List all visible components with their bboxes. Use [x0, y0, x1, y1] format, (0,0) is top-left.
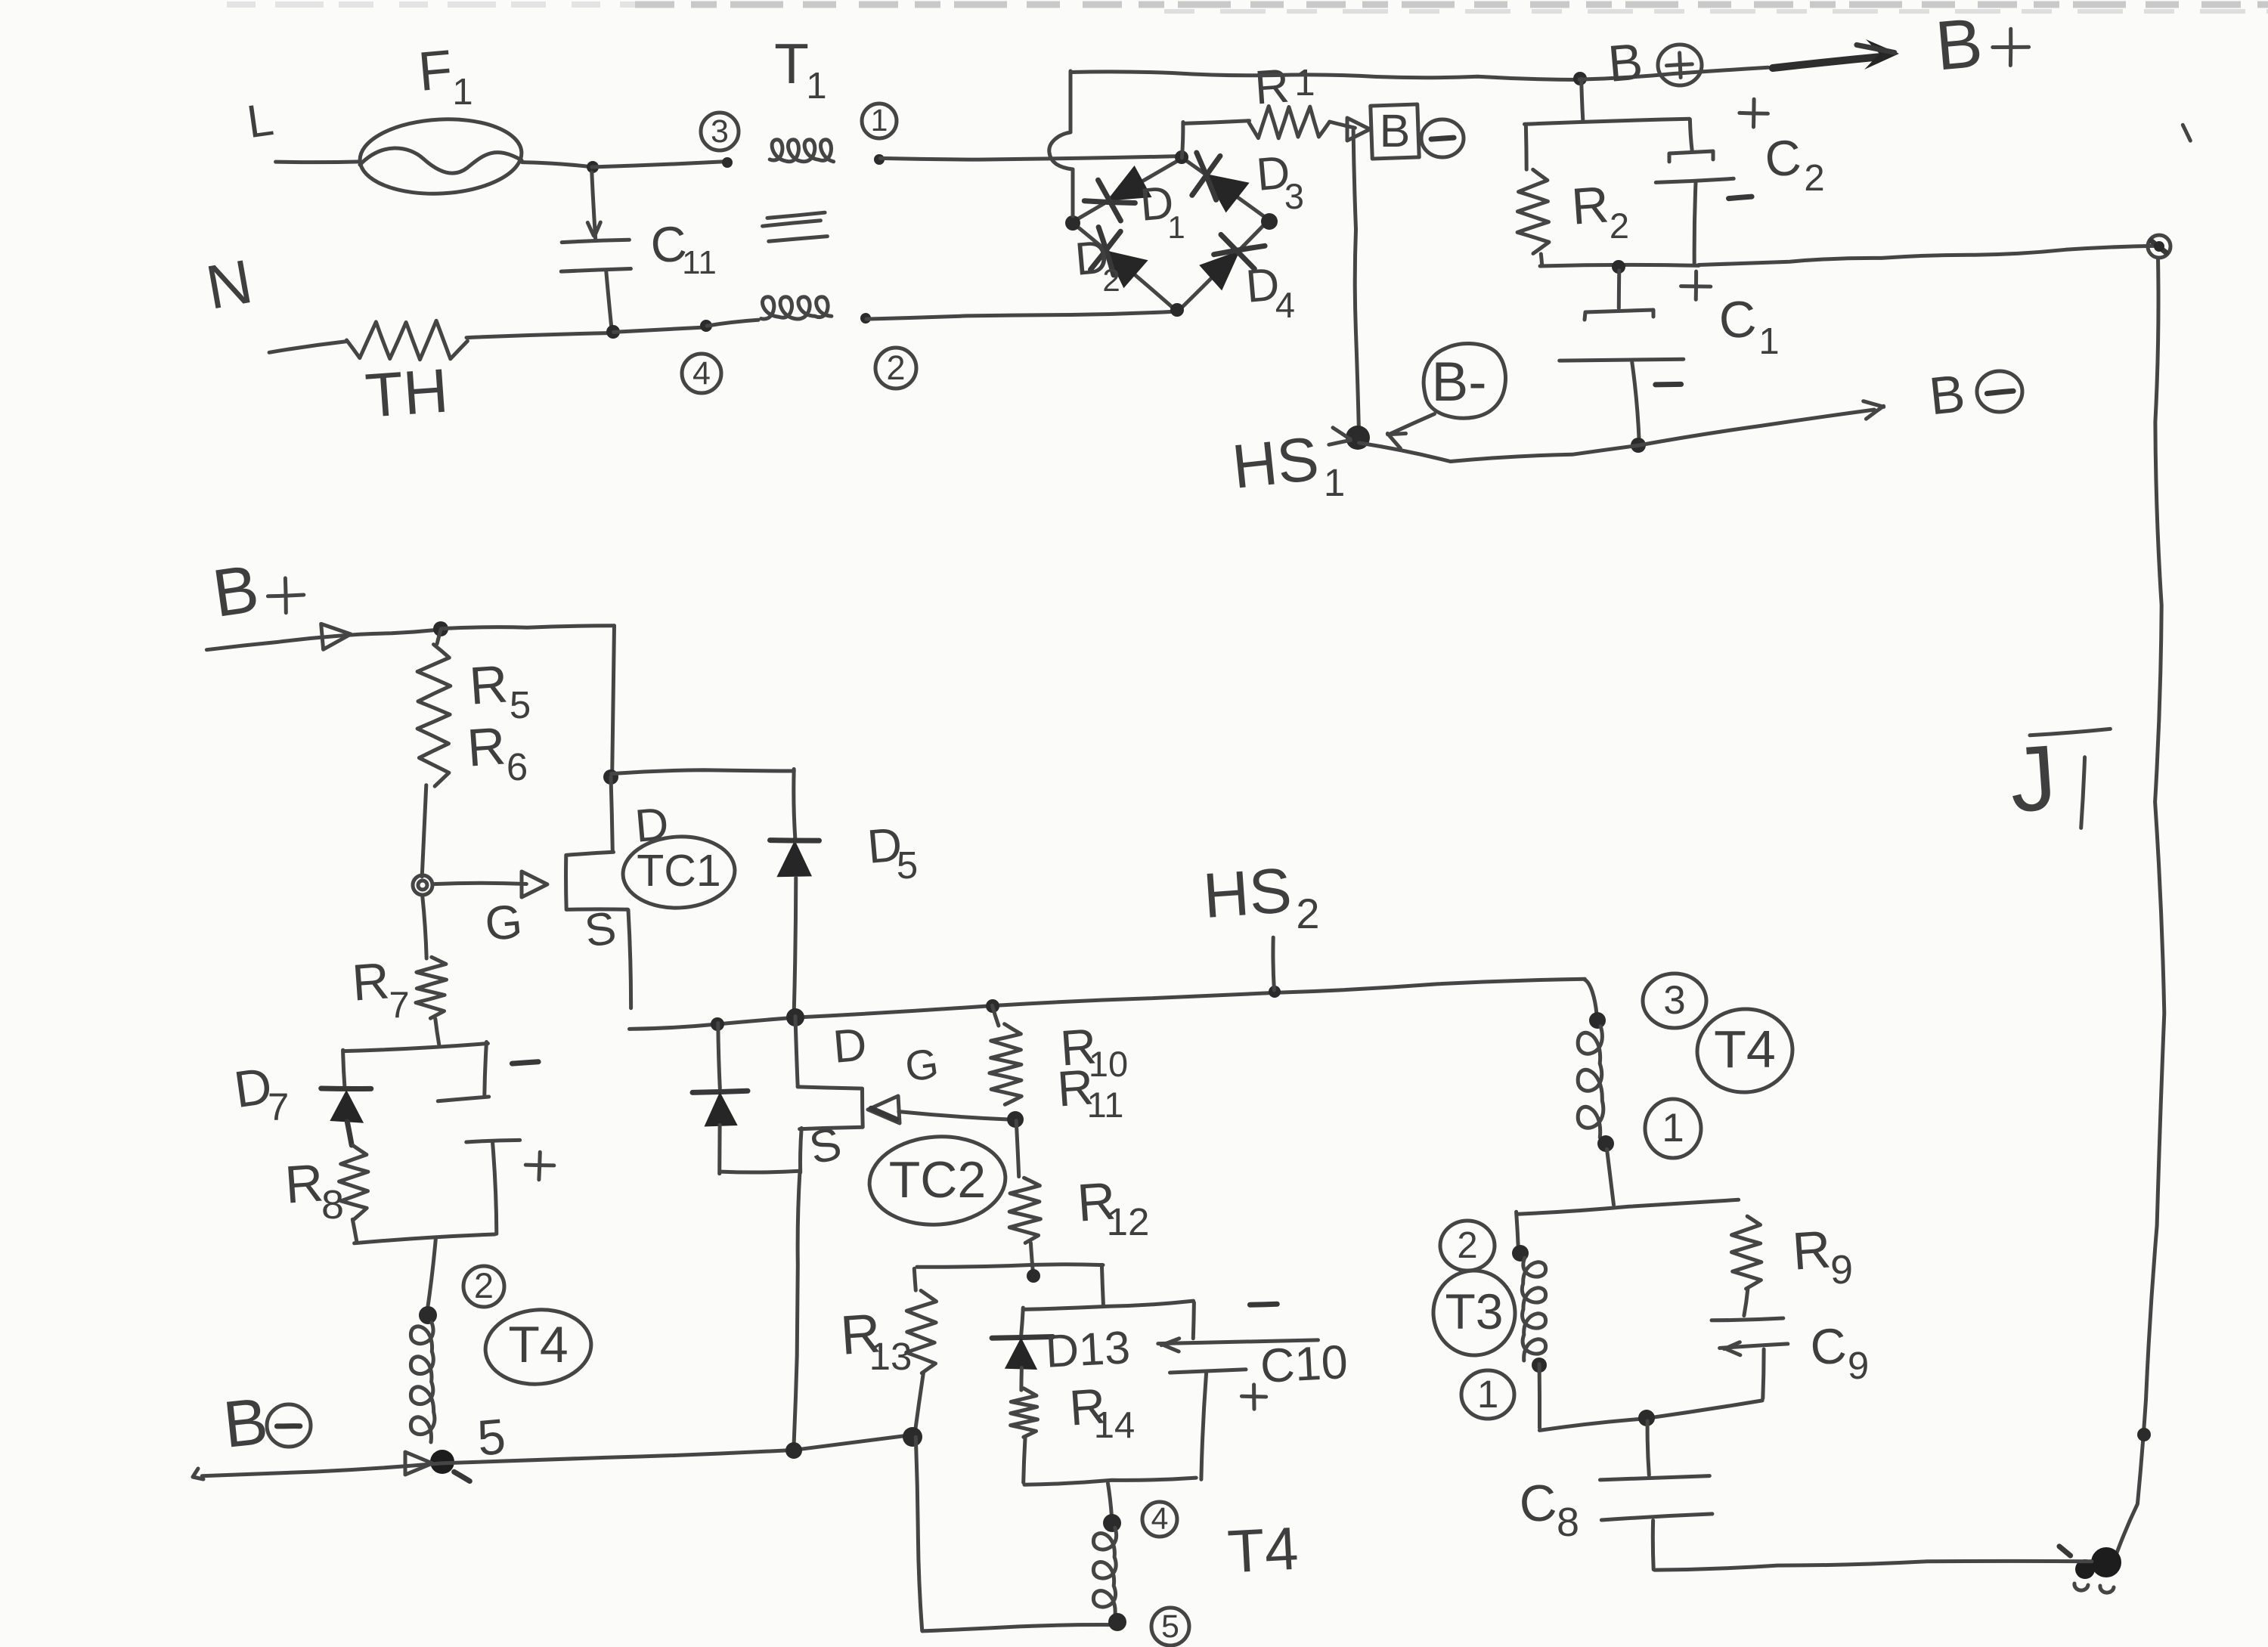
label R11	[1055, 1058, 1123, 1125]
pin label 2 (T1)	[875, 348, 916, 389]
svg-text:1: 1	[871, 103, 888, 138]
junction rail diode	[711, 1017, 724, 1031]
svg-text:10: 10	[1089, 1044, 1128, 1084]
label R12	[1075, 1171, 1149, 1243]
svg-text:B: B	[1606, 33, 1645, 93]
label C8	[1517, 1473, 1579, 1545]
svg-text:TH: TH	[363, 356, 450, 430]
svg-text:R: R	[467, 654, 510, 715]
capacitor C8	[1600, 1421, 1712, 1569]
wire R2C2 top	[1525, 119, 1690, 124]
junction B+ rail	[1573, 72, 1587, 85]
label HS2	[1201, 854, 1319, 937]
wire R6 to G node	[422, 785, 426, 877]
svg-text:C10: C10	[1259, 1336, 1349, 1393]
wire C8 to J1 blob	[1654, 1561, 2092, 1570]
arrow at 5	[405, 1452, 432, 1475]
pin label 1 (T3)	[1461, 1370, 1514, 1419]
wire node to J1 (long)	[1699, 246, 2158, 265]
label D13	[1044, 1321, 1131, 1377]
core T1	[763, 212, 828, 241]
wire R8 bottom lead	[352, 1219, 356, 1240]
node N (AC neutral input)	[201, 247, 257, 323]
capacitor C11	[561, 172, 631, 330]
pin label 4 (T4 bottom)	[1142, 1501, 1177, 1537]
label C9	[1808, 1317, 1869, 1387]
svg-text:2: 2	[1296, 890, 1319, 937]
battery cell	[438, 1042, 519, 1234]
svg-text:2: 2	[1457, 1225, 1477, 1266]
junction T4 pin1	[1597, 1135, 1614, 1152]
junction R12 bottom	[1027, 1269, 1040, 1283]
label F1	[416, 39, 473, 113]
diode D4	[1199, 234, 1265, 290]
wire TC1 top to D5	[612, 769, 795, 838]
inductor T3 winding	[1522, 1258, 1545, 1361]
svg-text:B-: B-	[1432, 351, 1487, 413]
wire T1 pin1 to bridge	[880, 156, 1182, 160]
svg-text:3: 3	[1284, 176, 1304, 216]
wire to T1 pin3	[592, 162, 724, 167]
wire inner box bottom	[1024, 1478, 1196, 1484]
terminal box B-	[1371, 104, 1419, 159]
svg-text:9: 9	[1830, 1247, 1853, 1293]
junction rail TC2 drain	[786, 1008, 804, 1026]
label B circled minus (right)	[1926, 364, 2022, 426]
capacitor C10	[1158, 1302, 1318, 1479]
svg-text:8: 8	[321, 1182, 344, 1228]
resistor R8	[339, 1145, 368, 1219]
arrow HS1 label	[1329, 428, 1351, 445]
junction T4 pin5	[1108, 1613, 1126, 1631]
junction bridge right corner	[1261, 213, 1278, 230]
svg-text:F: F	[416, 39, 454, 103]
arrow cloud to HS1	[1387, 414, 1434, 449]
wire T3 box bottom	[1539, 1401, 1762, 1431]
capacitor C9	[1712, 1289, 1788, 1398]
resistor R13	[906, 1268, 937, 1434]
inductor T4 winding 4-5	[1093, 1528, 1116, 1614]
svg-text:2: 2	[1804, 158, 1824, 199]
svg-text:T3: T3	[1445, 1283, 1503, 1339]
wire bridge edge D2	[1072, 222, 1176, 311]
terminal B- (bottom left)	[220, 1384, 311, 1462]
junction rail HS2	[1269, 986, 1281, 998]
svg-text:B: B	[1932, 5, 1985, 85]
pin label 1 (T4 right)	[1645, 1099, 1701, 1158]
label S (TC2)	[805, 1117, 846, 1174]
pin label 3 (T1)	[701, 113, 739, 150]
wire G node to gate arrow	[433, 883, 526, 884]
svg-text:R: R	[465, 716, 507, 777]
wire J1 vertical	[2117, 258, 2164, 1553]
label S (TC1)	[581, 902, 619, 957]
wire TC2 source down	[794, 1171, 800, 1449]
diode D3	[1192, 153, 1250, 212]
svg-text:R: R	[350, 952, 391, 1011]
junction top right (circled)	[2148, 235, 2170, 258]
wire L input	[276, 159, 361, 164]
svg-text:14: 14	[1094, 1405, 1136, 1446]
svg-text:D: D	[831, 1018, 869, 1073]
resistor R7	[416, 895, 447, 1018]
resistor R2	[1517, 169, 1549, 253]
wire gate TC2 to R11 node	[899, 1112, 1015, 1120]
junction T1 pin2	[860, 313, 871, 324]
capacitor C2	[1656, 119, 1734, 265]
junction T1 pin4	[700, 320, 712, 332]
svg-text:1: 1	[1167, 209, 1185, 245]
junction T3 pin1	[1532, 1358, 1547, 1373]
wire TH to C11 bottom	[466, 333, 613, 338]
svg-text:B: B	[220, 1384, 271, 1462]
svg-text:9: 9	[1848, 1344, 1869, 1387]
circled minus (B- terminal)	[1421, 119, 1464, 157]
svg-text:7: 7	[268, 1085, 289, 1128]
svg-text:T4: T4	[1714, 1020, 1776, 1079]
node G ring	[413, 875, 432, 895]
wire bridge edge D3	[1181, 156, 1269, 220]
arrow B- right	[1864, 401, 1884, 419]
wire R1 right	[1330, 122, 1356, 128]
wire HS2 tick	[1273, 937, 1274, 990]
wire HS1 to B- arrow (bottom)	[1359, 410, 1875, 462]
junction C11-top	[587, 161, 599, 173]
stray mark (scan)	[2183, 125, 2190, 141]
diode D5	[770, 841, 820, 1013]
label J1	[2006, 726, 2110, 831]
label R5	[467, 654, 531, 726]
junction T1 pin1	[874, 154, 885, 165]
wire D7 top lead	[343, 1050, 345, 1085]
wire to T1 pin4	[614, 327, 704, 332]
label T1	[774, 32, 827, 107]
svg-text:7: 7	[389, 985, 409, 1026]
junction T4 pin4	[1103, 1514, 1121, 1532]
label D5	[865, 818, 918, 887]
svg-text:4: 4	[1275, 285, 1295, 325]
label R6	[465, 716, 528, 788]
wire top B+ rail	[1071, 72, 1579, 80]
svg-text:11: 11	[682, 244, 717, 281]
svg-text:C: C	[1517, 1473, 1558, 1533]
label D4	[1244, 258, 1295, 325]
label R1	[1253, 60, 1315, 115]
junction T1 pin3	[722, 157, 733, 168]
inductor T4 winding 2-5	[411, 1323, 434, 1443]
svg-text:R: R	[1790, 1219, 1833, 1280]
wire junction down to R2C2	[1582, 79, 1583, 122]
svg-text:1: 1	[452, 72, 472, 113]
wire R13 box top	[917, 1265, 1103, 1267]
svg-text:13: 13	[869, 1335, 912, 1378]
label T4 (circled, left)	[482, 1305, 594, 1388]
pin label 4 (T1)	[682, 354, 721, 393]
inductor T4 winding 3-1	[1578, 1026, 1603, 1138]
label B+ (top right)	[1932, 5, 2028, 85]
svg-text:6: 6	[507, 745, 528, 788]
label D (TC2)	[831, 1018, 869, 1073]
label D1	[1138, 176, 1185, 245]
svg-text:HS: HS	[1229, 424, 1322, 501]
label R7	[350, 952, 409, 1026]
label D3	[1254, 146, 1304, 216]
wire rail corner down	[1585, 980, 1597, 1014]
svg-text:G: G	[902, 1039, 941, 1090]
junction C1 bottom	[1631, 438, 1646, 453]
junction gate node TC2	[1007, 1111, 1024, 1128]
label T4 (bottom)	[1226, 1515, 1300, 1586]
wire bridge edge D1	[1072, 158, 1183, 223]
junction TC2 source on B-	[785, 1442, 802, 1459]
svg-text:1: 1	[1324, 461, 1345, 504]
plus C10	[1241, 1385, 1266, 1409]
wire R13 down left side	[916, 1437, 922, 1630]
label R2	[1569, 175, 1629, 246]
capacitor C1	[1560, 271, 1684, 441]
wire D7 box bottom	[355, 1234, 495, 1243]
svg-text:TC2: TC2	[889, 1151, 986, 1209]
wire T3 bottom lead	[1538, 1364, 1541, 1429]
svg-text:C: C	[1763, 128, 1803, 187]
junction TC1 drain node	[603, 769, 618, 785]
svg-text:J: J	[2006, 726, 2059, 831]
svg-text:T: T	[774, 32, 809, 95]
fuse F1	[358, 115, 524, 197]
label D2	[1073, 231, 1120, 298]
arrow gate TC1	[522, 871, 547, 897]
label D7	[231, 1057, 289, 1128]
resistor R10 R11	[990, 1005, 1021, 1104]
wire bridge top to R1	[1182, 122, 1183, 158]
wire T3 box top	[1517, 1200, 1738, 1214]
junction C1 top	[1612, 260, 1625, 274]
label C1	[1717, 289, 1779, 362]
junction blob 5	[430, 1450, 469, 1481]
svg-text:G: G	[483, 895, 525, 951]
wire T3 top lead	[1517, 1212, 1519, 1249]
svg-text:1: 1	[1662, 1106, 1684, 1150]
junction T4 pin3	[1589, 1012, 1606, 1029]
wire inner box top	[1023, 1301, 1193, 1309]
wire R2C2 bottom	[1540, 265, 1699, 266]
svg-text:3: 3	[711, 113, 729, 150]
wire HS2 rail	[630, 979, 1585, 1029]
wire box right corner down	[1101, 1265, 1103, 1306]
svg-text:2: 2	[474, 1265, 494, 1305]
arrow B+ feed	[321, 624, 351, 649]
resistor R5 R6	[417, 629, 451, 786]
svg-text:5: 5	[1161, 1608, 1179, 1645]
label TC1 (circled)	[621, 834, 737, 911]
svg-text:TC1: TC1	[637, 846, 720, 896]
wire diode to TC2 source	[720, 1171, 799, 1172]
junction bridge bottom corner	[1170, 303, 1184, 317]
inductor T1 winding 4-2	[761, 297, 832, 319]
junction R13 bottom	[903, 1427, 922, 1447]
wire R14 bottom	[1024, 1438, 1025, 1483]
svg-text:T4: T4	[1226, 1515, 1300, 1586]
svg-text:C: C	[1808, 1317, 1848, 1375]
diode TC2 protection	[692, 1023, 748, 1174]
svg-text:HS: HS	[1201, 854, 1294, 931]
svg-text:R: R	[1569, 175, 1610, 235]
inductor T1 winding 3-1	[770, 140, 833, 162]
pin label 5 (T4 bottom)	[1151, 1608, 1189, 1645]
wire T4 pin1 to T3 box	[1607, 1149, 1614, 1205]
svg-text:B: B	[1926, 364, 1968, 426]
plus battery	[525, 1152, 554, 1180]
wire bridge edge D4	[1179, 221, 1269, 311]
terminal cloud B-	[1424, 343, 1505, 418]
label 5	[475, 1408, 507, 1466]
svg-text:12: 12	[1107, 1200, 1150, 1243]
wire TC1 drain branch	[612, 626, 615, 774]
label TC2 (circled)	[866, 1132, 1009, 1229]
label R13	[838, 1302, 912, 1378]
mosfet TC1 body	[566, 777, 631, 1008]
minus C1	[1656, 382, 1681, 388]
svg-text:5: 5	[510, 683, 531, 726]
svg-text:D13: D13	[1044, 1321, 1131, 1377]
node L (AC line input)	[244, 93, 277, 147]
svg-text:1: 1	[1758, 321, 1779, 362]
label R8	[283, 1153, 344, 1228]
junction blob bottom right	[2059, 1546, 2121, 1593]
wire D7 box top	[343, 1044, 488, 1051]
junction T4 pin2	[419, 1306, 437, 1324]
wire B+ to TC1 branch	[442, 626, 613, 629]
resistor R1	[1249, 107, 1330, 138]
svg-text:B: B	[1380, 105, 1411, 156]
junction bridge left corner	[1065, 215, 1080, 231]
wire N input	[269, 342, 347, 353]
svg-text:5: 5	[897, 844, 918, 887]
wire R1 left	[1183, 121, 1250, 124]
label B circled plus (B+)	[1606, 33, 1702, 93]
svg-text:3: 3	[1663, 978, 1685, 1023]
plus C2	[1740, 99, 1768, 127]
junction bridge top corner	[1175, 150, 1188, 164]
wire fuse to C11 node	[522, 163, 592, 167]
label TH	[363, 356, 450, 430]
label R14	[1067, 1377, 1135, 1446]
label T3 (circled)	[1430, 1268, 1518, 1358]
svg-text:2: 2	[1610, 206, 1629, 246]
wire box to T4 pin2	[427, 1237, 435, 1310]
minus C10	[1250, 1304, 1277, 1305]
wire B+ rail to arrow	[1579, 67, 1768, 79]
plus C1	[1681, 271, 1711, 299]
wire inner bottom to T4 pin4	[1108, 1484, 1112, 1517]
svg-text:4: 4	[692, 355, 711, 392]
label C2	[1763, 128, 1825, 199]
junction rail R10	[986, 999, 999, 1013]
diode D2	[1091, 228, 1148, 289]
arrow into B- terminal	[1347, 118, 1370, 141]
wire bottom box	[922, 1625, 1115, 1631]
scan artifact band (decorative)	[227, 5, 2268, 11]
minus battery	[512, 1062, 538, 1063]
label G (TC1)	[483, 895, 525, 951]
svg-text:8: 8	[1557, 1500, 1579, 1545]
svg-text:1: 1	[1294, 63, 1315, 104]
diode D13	[992, 1308, 1052, 1370]
svg-text:1: 1	[806, 66, 826, 107]
heavy arrow B+	[1773, 39, 1899, 70]
junction T3 pin2	[1512, 1245, 1529, 1262]
terminal B+ (middle left)	[208, 550, 303, 631]
junction R5 top	[433, 621, 448, 636]
label C11	[649, 215, 717, 281]
resistor R9	[1731, 1216, 1761, 1289]
svg-text:2: 2	[886, 348, 905, 387]
label R9	[1790, 1219, 1853, 1293]
svg-text:R: R	[283, 1153, 325, 1214]
pin label 2 (T4 left)	[463, 1265, 504, 1307]
svg-text:4: 4	[1151, 1501, 1169, 1536]
thermistor TH	[347, 320, 468, 359]
diode D1	[1084, 166, 1151, 221]
junction C11-bottom	[606, 325, 620, 339]
label C10	[1259, 1336, 1349, 1393]
diode D7	[321, 1088, 371, 1145]
arrow gate TC2	[868, 1096, 900, 1123]
label T4 (circled, right)	[1694, 1006, 1795, 1096]
wire bridge left corner up (with hop)	[1049, 71, 1073, 216]
svg-text:C: C	[1717, 289, 1758, 349]
junction mark on J1 wire	[2137, 1428, 2151, 1441]
svg-text:T4: T4	[508, 1316, 568, 1373]
pin label 3 (T4 right)	[1643, 974, 1706, 1028]
svg-text:1: 1	[1477, 1373, 1498, 1416]
resistor R14	[1011, 1368, 1038, 1438]
wire R2 bottom lead	[1541, 254, 1541, 265]
wire B- bottom	[193, 1435, 914, 1479]
svg-text:2: 2	[1102, 262, 1120, 298]
wire B+ feed	[206, 630, 440, 650]
pin label 2 (T3)	[1440, 1221, 1495, 1271]
minus C2	[1729, 197, 1752, 199]
pin label 1 (T1)	[862, 103, 897, 138]
svg-text:R: R	[1253, 60, 1290, 115]
wire pin4 to coil	[707, 320, 758, 326]
wire T1 pin2 to bridge	[866, 311, 1174, 319]
label G (TC2)	[902, 1039, 941, 1090]
junction C8 top	[1638, 1410, 1655, 1426]
mosfet TC2 body	[795, 1017, 863, 1173]
wire R2 top lead	[1524, 126, 1529, 169]
label D (TC1)	[633, 797, 671, 852]
junction HS1 (heatsink stud)	[1346, 426, 1370, 450]
svg-text:11: 11	[1087, 1085, 1124, 1125]
wire B- node down to HS1	[1353, 130, 1359, 429]
label HS1	[1229, 424, 1345, 504]
wire R7 to box	[435, 1019, 439, 1045]
resistor R12	[1009, 1121, 1040, 1274]
svg-text:5: 5	[475, 1408, 507, 1466]
label R10	[1058, 1017, 1128, 1084]
